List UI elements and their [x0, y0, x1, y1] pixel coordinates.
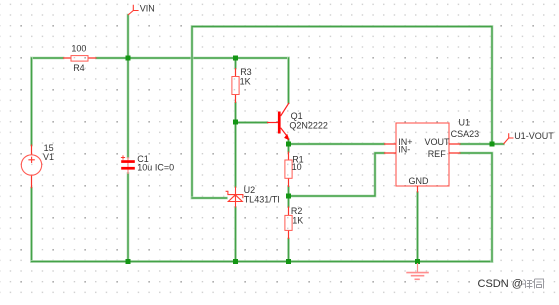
wire U2 anode to ground rail: [234, 208, 237, 262]
watermark CJK glyphs: [522, 279, 544, 289]
junction U2 / ground rail: [233, 259, 238, 264]
resistor R3: [232, 68, 239, 103]
svg-text:1K: 1K: [292, 215, 303, 225]
svg-text:U1-VOUT: U1-VOUT: [514, 131, 554, 141]
svg-text:CSA23: CSA23: [451, 129, 480, 139]
svg-text:TL431/TI: TL431/TI: [244, 194, 280, 204]
svg-text:VIN: VIN: [140, 4, 155, 14]
wire R3 top: [234, 58, 237, 68]
wire left branch V1 bottom: [30, 188, 33, 262]
svg-text:U1: U1: [459, 118, 471, 128]
wire R3 bottom to base junction: [234, 103, 237, 122]
wire VOUT to flag: [461, 143, 504, 146]
wire feedback top loop: [192, 27, 492, 199]
wire R1 bottom: [287, 187, 290, 207]
resistor R2: [285, 207, 292, 240]
wire left branch V1 top: [30, 58, 33, 145]
wire emitter to IN+: [289, 143, 385, 146]
svg-text:REF: REF: [428, 149, 447, 159]
junction C1 / ground rail: [126, 259, 131, 264]
wire Q1 emitter to junction: [287, 140, 290, 152]
wire Q1 base: [236, 121, 268, 124]
junction VOUT node: [490, 142, 495, 147]
op-amp block U1 CSA23: [384, 123, 461, 193]
svg-text:Q2N2222: Q2N2222: [289, 121, 328, 131]
svg-text:1K: 1K: [240, 76, 251, 86]
wire U2 ref: [192, 197, 227, 200]
wire REF to ground rail: [461, 153, 493, 262]
wire main top rail left segment: [32, 57, 64, 60]
junction R1/R2 / IN-: [286, 194, 291, 199]
svg-text:R4: R4: [73, 63, 85, 73]
wire R1R2 junction to IN-: [289, 153, 385, 196]
ground symbol: [406, 263, 429, 279]
junction R3/rail: [233, 56, 238, 61]
svg-text:CSDN @: CSDN @: [478, 278, 523, 290]
wire U1 GND pin down: [416, 193, 419, 262]
svg-text:IN-: IN-: [398, 144, 410, 154]
capacitor C1: [121, 155, 135, 174]
svg-text:10: 10: [292, 162, 302, 172]
svg-text:Q1: Q1: [291, 111, 303, 121]
junction VIN/rail: [126, 56, 131, 61]
wire junction to U2 cathode: [234, 122, 237, 187]
svg-text:GND: GND: [409, 176, 430, 186]
voltage source V1: [21, 145, 41, 189]
svg-text:V1: V1: [43, 152, 54, 162]
wire main top rail right of R4: [97, 57, 289, 60]
net flag U1-VOUT: [504, 133, 514, 144]
junction R3 bottom / base: [233, 120, 238, 125]
junction R2 / ground rail: [286, 259, 291, 264]
resistor R1: [285, 152, 292, 188]
wire VIN vertical: [127, 15, 130, 157]
svg-text:10u IC=0: 10u IC=0: [137, 163, 174, 173]
wire bottom ground rail: [32, 260, 493, 263]
shunt regulator U2 TL431: [226, 187, 243, 208]
wire C1 bottom: [127, 174, 130, 262]
transistor Q1: [267, 103, 289, 140]
wire Q1 collector: [287, 58, 290, 103]
svg-text:100: 100: [71, 43, 86, 53]
svg-text:R2: R2: [291, 206, 303, 216]
wire R2 bottom: [287, 239, 290, 262]
resistor R4: [63, 56, 97, 62]
junction emitter / IN+: [286, 142, 291, 147]
net flag VIN: [128, 5, 139, 15]
junction U1 GND / ground rail: [415, 259, 420, 264]
svg-text:VOUT: VOUT: [425, 137, 451, 147]
